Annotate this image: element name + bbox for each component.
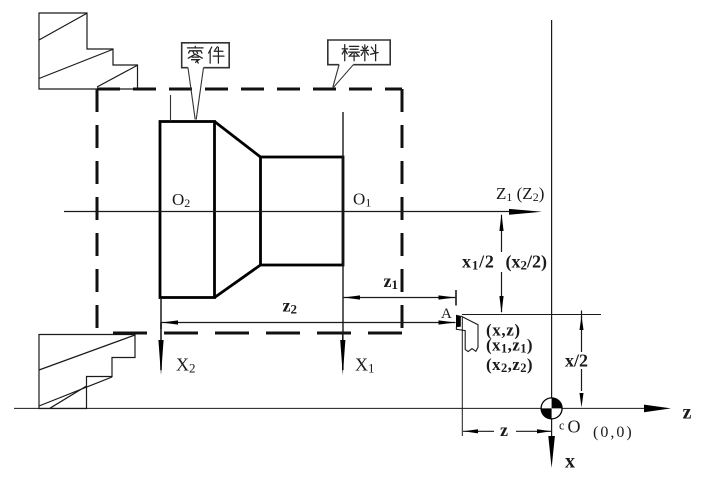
hanzi jian (part char2) [209, 47, 224, 63]
dimension z2 [161, 322, 456, 324]
machine origin datum symbol [541, 398, 562, 419]
svg-text:c: c [559, 419, 565, 433]
part profile [160, 122, 343, 298]
svg-text:x/2: x/2 [565, 351, 588, 371]
tool insert tip [456, 315, 461, 327]
hanzi ling (zero/part char1) [187, 46, 203, 63]
svg-text:x1/2: x1/2 [462, 252, 495, 273]
svg-text:O: O [568, 417, 581, 437]
extension line part left edge [160, 299, 162, 329]
dimension z [463, 430, 552, 432]
line at level A [462, 314, 601, 316]
extension line right face O1 [342, 112, 344, 333]
centerline arrowhead Z axis part [509, 209, 542, 215]
svg-text:(x2,z2): (x2,z2) [486, 355, 533, 375]
axis arrow X1 [342, 333, 344, 370]
leader line at part left [170, 95, 172, 121]
chuck jaw bottom [39, 335, 135, 409]
callout pointer bangliao [333, 65, 339, 88]
svg-text:(x1,z1): (x1,z1) [486, 336, 533, 356]
svg-text:A: A [441, 306, 452, 322]
tick at tool point A [455, 290, 457, 306]
dashed bar stock outline [97, 89, 402, 333]
dashed bar stock outline bottom edge [97, 332, 402, 335]
chuck jaw top [39, 13, 138, 89]
tool body [456, 316, 478, 352]
svg-text:x: x [565, 451, 575, 473]
axis arrow X2 [160, 323, 162, 371]
extension line from tool down [461, 317, 463, 437]
svg-text:(0,0): (0,0) [593, 424, 634, 441]
callout box lingjian (part) [182, 43, 230, 68]
z axis line [14, 407, 646, 409]
hanzi liao (bar char2) [361, 45, 378, 61]
machine vertical line [551, 20, 553, 440]
x axis arrowhead [548, 436, 555, 468]
dimension z1 [343, 297, 455, 299]
svg-text:z: z [500, 420, 508, 440]
callout pointer lingjian [188, 68, 195, 120]
z axis arrowhead [644, 405, 671, 413]
centerline [64, 211, 520, 213]
callout box bangliao (bar stock) [328, 40, 390, 65]
svg-text:(x2/2): (x2/2) [506, 252, 548, 273]
dimension x1/2 [501, 215, 503, 312]
hanzi bang (bar char1) [342, 45, 359, 61]
dimension x/2 [581, 316, 583, 391]
svg-text:z: z [683, 402, 692, 424]
